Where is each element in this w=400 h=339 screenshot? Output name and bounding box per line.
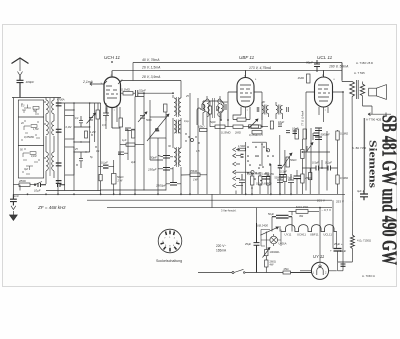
capacitor 5000pF right xyxy=(315,128,322,131)
IF3 trim caps xyxy=(257,107,288,112)
coil L6 coupled xyxy=(52,152,54,170)
capacitor 10µF bottom left xyxy=(38,183,65,187)
PSU cap 5000pF xyxy=(277,174,283,194)
resistor 70kΩ xyxy=(237,118,246,121)
svg-text:26 V, 1,5mA: 26 V, 1,5mA xyxy=(141,66,161,70)
svg-text:280Ω: 280Ω xyxy=(18,179,27,183)
wire right bottom xyxy=(333,200,338,262)
resistor 280Ω bottom left xyxy=(13,183,35,186)
svg-text:0,1MΩ: 0,1MΩ xyxy=(247,173,255,176)
resistor 0,3MΩ xyxy=(251,125,261,128)
resistor M13 25Ω 4W xyxy=(292,210,319,214)
svg-text:25Ω: 25Ω xyxy=(284,267,289,271)
wire mid verticals xyxy=(135,93,198,194)
osc box 2 xyxy=(65,147,74,175)
svg-text:173 V, 4,75mA: 173 V, 4,75mA xyxy=(249,66,272,70)
vertical resistor 0,3MΩ xyxy=(270,121,273,129)
tube pin numbers xyxy=(101,75,336,112)
svg-text:+: + xyxy=(330,249,332,253)
svg-text:160 V, 50mA: 160 V, 50mA xyxy=(329,65,349,69)
svg-text:UY11: UY11 xyxy=(285,233,292,237)
IF2 core xyxy=(213,98,215,118)
wire tone section xyxy=(302,130,337,194)
AVC diode pot arrow xyxy=(249,119,259,129)
IF1b core xyxy=(177,147,179,167)
capacitor 90pF xyxy=(314,60,320,72)
wire IF2 xyxy=(202,96,224,194)
capacitor 4700 dark xyxy=(56,103,62,106)
wire PSU right verticals xyxy=(257,208,344,271)
antenna xyxy=(12,58,29,76)
svg-text:50µF: 50µF xyxy=(268,212,275,216)
PSU resistor MPG xyxy=(259,176,262,185)
svg-text:0,1µF: 0,1µF xyxy=(101,161,108,165)
bus left verticals xyxy=(19,185,21,191)
switch wiper circles xyxy=(251,149,270,174)
electrolytic 25µF dark xyxy=(334,249,342,252)
svg-text:0,3: 0,3 xyxy=(102,124,106,127)
svg-text:UBF 11: UBF 11 xyxy=(239,55,255,60)
svg-text:5000pF: 5000pF xyxy=(321,133,330,137)
svg-text:52pF: 52pF xyxy=(139,89,146,93)
IF2 primary cap xyxy=(202,104,204,110)
svg-text:SB 481 GW und 490 GW: SB 481 GW und 490 GW xyxy=(378,115,400,265)
svg-text:52pF: 52pF xyxy=(222,101,228,104)
oscillator section verticals xyxy=(46,98,101,191)
svg-text:UY 11: UY 11 xyxy=(313,254,324,259)
svg-text:2MΩ: 2MΩ xyxy=(234,131,241,135)
wire anode bus 1 xyxy=(133,62,342,64)
resistor 1,5kΩ contact xyxy=(238,148,246,151)
lamp wiring box xyxy=(261,230,281,247)
padder capacitor 50pF xyxy=(163,156,170,159)
wire IF3 xyxy=(262,102,283,120)
svg-text:4W: 4W xyxy=(270,263,274,267)
resistor 50kΩ 2W xyxy=(112,174,117,185)
current arrow 2,1mA xyxy=(90,83,96,86)
resistor 0,5MΩ right rail xyxy=(336,175,339,184)
scale lamp circle xyxy=(270,236,278,244)
capacitor 25µF xyxy=(254,223,260,273)
IF3b secondary coil xyxy=(281,106,283,114)
PSU top rail xyxy=(212,191,236,208)
resistor row under UBF: R 1,5MΩ xyxy=(215,125,225,128)
trimmer cap mid xyxy=(138,112,147,122)
svg-text:0,1M: 0,1M xyxy=(31,155,36,158)
svg-text:1,5kΩ: 1,5kΩ xyxy=(238,144,245,148)
svg-text:10µF: 10µF xyxy=(34,189,41,193)
tube UBF11 envelope xyxy=(228,70,262,118)
svg-text:ZF: ZF xyxy=(261,101,266,104)
svg-text:0,1µF (MPG): 0,1µF (MPG) xyxy=(256,182,272,186)
vertical capacitor 10µF xyxy=(278,124,282,126)
capacitor C-ant 100pF xyxy=(17,76,24,98)
svg-text:5µF +: 5µF + xyxy=(288,177,295,180)
osc junction dots xyxy=(57,102,97,166)
osc box 1 xyxy=(65,116,74,139)
AVC resistor UCH xyxy=(126,143,135,146)
resistor 10kΩ mid xyxy=(198,125,207,132)
svg-text:0,05MΩ: 0,05MΩ xyxy=(24,135,35,139)
svg-text:10µF: 10µF xyxy=(278,120,285,124)
resistor 50Ω mid xyxy=(132,130,135,138)
coil L4 coupled xyxy=(52,100,54,114)
tuner box junction dots xyxy=(21,103,39,172)
wire output top xyxy=(340,63,372,115)
IF1 core xyxy=(177,97,179,117)
svg-text:(MPG): (MPG) xyxy=(256,173,264,176)
cap 0,1µF mid xyxy=(328,166,331,171)
cap 4700pF xyxy=(118,152,124,155)
svg-text:28 V, 3,9mA: 28 V, 3,9mA xyxy=(141,75,161,79)
svg-text:52pF: 52pF xyxy=(210,121,216,124)
capacitor osc3 dark xyxy=(56,163,62,166)
screen cap UCH xyxy=(125,128,131,131)
coil L3 xyxy=(46,152,48,170)
wire right rail down xyxy=(363,118,366,190)
wire coil column xyxy=(44,98,54,185)
bottom bus line 3 xyxy=(107,207,332,209)
screen resistor UCH xyxy=(119,118,123,127)
resistor 70kΩ 1W xyxy=(190,173,200,177)
detector verticals xyxy=(235,135,285,194)
IF3 primary coil xyxy=(262,106,264,114)
svg-text:50kΩ: 50kΩ xyxy=(290,158,296,162)
misc tiny labels mid xyxy=(96,95,266,164)
output transformer secondary xyxy=(360,84,364,96)
IF1 mid coil pair xyxy=(174,120,181,134)
svg-text:Siemens: Siemens xyxy=(367,140,378,188)
svg-text:25: 25 xyxy=(185,95,189,98)
wire left of UBF xyxy=(197,101,221,127)
PSU resistor 30kΩ 2W xyxy=(267,176,270,185)
svg-text:0,1MΩ: 0,1MΩ xyxy=(340,132,348,136)
svg-text:4700A: 4700A xyxy=(57,98,65,102)
svg-text:5pF: 5pF xyxy=(33,110,38,113)
speaker xyxy=(369,85,387,100)
svg-text:4µF: 4µF xyxy=(131,161,136,164)
core line tuner coils xyxy=(49,98,51,176)
svg-text:Sockelschaltung: Sockelschaltung xyxy=(156,259,182,263)
resistor osc right xyxy=(99,174,102,180)
svg-text:3 Var-Anschl.: 3 Var-Anschl. xyxy=(221,209,237,213)
coil det xyxy=(221,104,223,119)
capacitor 52pF xyxy=(136,90,145,97)
osc cap a xyxy=(79,116,83,127)
svg-text:1µF: 1µF xyxy=(122,139,127,142)
IF transformer 1b secondary coil xyxy=(179,148,181,166)
resistor 260Ω 4W xyxy=(265,260,268,267)
tuner box extra marks xyxy=(22,110,40,174)
resistor 100Ω vertical xyxy=(164,104,168,112)
bottom bus line full xyxy=(13,193,345,195)
IF transformer 1 secondary coil xyxy=(179,98,181,116)
svg-text:40 V, 76mA: 40 V, 76mA xyxy=(142,58,160,62)
svg-text:4 Ω₂ 7150Ω: 4 Ω₂ 7150Ω xyxy=(357,239,371,243)
resistor 0,15MΩ xyxy=(233,125,243,128)
resistor 25kΩ psu xyxy=(309,173,312,180)
svg-text:253 V: 253 V xyxy=(336,200,344,204)
coil left of UBF xyxy=(217,101,223,120)
capacitor 0,1µF MPG xyxy=(262,177,270,180)
capacitor +75 electrolytic xyxy=(336,232,339,271)
svg-text:50pF: 50pF xyxy=(150,156,157,160)
resistor 25Ω bottom xyxy=(283,271,291,274)
resistor left of UBF vertical xyxy=(208,106,211,114)
field coil zigzag xyxy=(338,200,354,262)
svg-text:2,1mA: 2,1mA xyxy=(82,80,94,84)
wire anode bus 2 xyxy=(112,70,342,72)
capacitor 50µF h xyxy=(272,215,292,218)
right margin small labels xyxy=(352,61,382,278)
PSU cap 5µF xyxy=(288,174,294,194)
IF2 secondary cap xyxy=(224,104,226,110)
svg-text:100pF: 100pF xyxy=(26,80,35,84)
capacitor blob contact xyxy=(241,154,244,157)
padder capacitor 250pF xyxy=(163,168,170,171)
capacitor 100pF xyxy=(286,131,290,133)
PSU wires mid xyxy=(266,226,280,273)
capacitor osc4 dark xyxy=(56,181,62,184)
capacitor 0,1µF MPG right xyxy=(294,176,301,179)
svg-text:1,5M: 1,5M xyxy=(33,128,38,131)
resistor 0,1MΩ right rail xyxy=(336,131,339,140)
svg-text:10kΩ: 10kΩ xyxy=(198,125,204,129)
right area verticals xyxy=(306,92,352,271)
socket circle Sockelschaltung xyxy=(158,229,182,253)
svg-text:25kΩ: 25kΩ xyxy=(304,176,311,180)
right margin arrow mark xyxy=(368,113,391,116)
svg-text:– 0,7 V: – 0,7 V xyxy=(322,208,332,212)
mid dots xyxy=(185,133,199,143)
svg-text:5000pF: 5000pF xyxy=(275,177,284,180)
svg-text:1MΩ: 1MΩ xyxy=(298,76,305,80)
capacitor 0,1µF dark left xyxy=(103,165,109,168)
brand Siemens xyxy=(367,140,378,188)
detector resistor xyxy=(283,175,286,182)
tone switch arrow xyxy=(307,143,313,152)
IF3b primary coil xyxy=(276,106,278,114)
svg-text:A· T 535: A· T 535 xyxy=(354,71,365,75)
svg-text:3pF: 3pF xyxy=(24,168,29,171)
svg-text:1,5: 1,5 xyxy=(196,150,200,153)
wire bus drops xyxy=(96,63,342,96)
wire outer left rail xyxy=(12,98,14,195)
svg-text:0,5µF: 0,5µF xyxy=(312,161,319,165)
volume potentiometer arrow xyxy=(281,153,292,169)
wire anode bus 3 xyxy=(121,80,182,82)
Urdox resistor 100ΩWL xyxy=(263,248,271,258)
capacitor 2500pF xyxy=(170,183,177,186)
svg-text:0,1M: 0,1M xyxy=(66,125,73,129)
svg-text:50kΩ: 50kΩ xyxy=(117,175,123,179)
resistor 1MΩ vertical xyxy=(307,74,311,83)
coil L5 coupled xyxy=(52,121,54,135)
wire 50k xyxy=(98,160,114,194)
svg-text:2500pF: 2500pF xyxy=(155,184,166,188)
tube UCL11 envelope xyxy=(306,70,340,122)
resistor vol 50kΩ xyxy=(286,157,290,167)
svg-text:70kΩ: 70kΩ xyxy=(190,169,198,173)
svg-text:M13 25Ω: M13 25Ω xyxy=(296,205,309,209)
tone resistor 1 xyxy=(301,150,304,159)
svg-text:4µF +: 4µF + xyxy=(357,189,364,193)
page border frame (decorative scan border) xyxy=(3,25,397,287)
svg-text:0,1µF: 0,1µF xyxy=(325,161,332,165)
tube UCH11 envelope xyxy=(104,71,121,128)
svg-text:0,1MΩ: 0,1MΩ xyxy=(121,88,131,92)
tuner inner divider xyxy=(18,117,43,146)
svg-text:0,15MΩ: 0,15MΩ xyxy=(221,131,231,135)
wire row under UBF xyxy=(210,92,268,127)
osc tiny labels xyxy=(74,117,95,159)
svg-text:30kΩ 2W: 30kΩ 2W xyxy=(264,173,275,176)
lamp shunt arrow xyxy=(260,227,278,235)
coil L1 xyxy=(46,100,48,114)
capacitor 1nF + ground xyxy=(10,194,17,205)
IF transformer 2 primary xyxy=(207,99,209,117)
capacitor 10nF dark xyxy=(293,131,298,133)
contact circle mid xyxy=(191,139,194,142)
bottom wire to rectifier xyxy=(248,272,312,274)
tuner block frame xyxy=(18,100,43,178)
capacitor 0,3µF xyxy=(279,175,286,178)
osc tie wires xyxy=(65,110,90,152)
svg-text:90pF: 90pF xyxy=(306,61,313,65)
capacitor osc2 dark xyxy=(56,129,62,132)
PSU wires row xyxy=(252,172,268,194)
IF3b core xyxy=(279,105,281,115)
svg-text:2 W: 2 W xyxy=(117,179,123,183)
svg-text:77 V, 0,4mA: 77 V, 0,4mA xyxy=(301,111,305,126)
rectifier tube UY11 xyxy=(291,262,337,279)
svg-text:UCH11: UCH11 xyxy=(297,233,306,237)
svg-text:A· 8Ω 7150: A· 8Ω 7150 xyxy=(352,146,367,150)
svg-text:10nF: 10nF xyxy=(292,127,298,131)
IF transformer 2 secondary xyxy=(218,99,220,117)
svg-text:ZF = 468 kHz: ZF = 468 kHz xyxy=(37,205,66,210)
svg-text:165mA: 165mA xyxy=(216,249,227,253)
title SB 481 GW und 490 GW xyxy=(378,115,400,265)
vertical resistor right 0,5MΩ xyxy=(295,129,299,139)
trimmer capacitor T2 xyxy=(87,113,96,124)
bottom bus line 2 xyxy=(87,199,332,201)
IF3 secondary coil xyxy=(267,106,269,114)
tuner interior parts xyxy=(23,105,39,171)
tone resistor 2 xyxy=(301,174,304,183)
tuner box tiny labels xyxy=(20,105,38,172)
osc cap b xyxy=(79,152,83,168)
mains switch xyxy=(198,269,248,273)
svg-text:22µF: 22µF xyxy=(340,249,347,253)
wire antenna top bus xyxy=(12,97,61,99)
capacitor 0,1µF right xyxy=(315,137,322,140)
band switch arrows xyxy=(233,148,252,188)
IF transformer 1 primary coil xyxy=(174,98,176,116)
svg-text:UCL 11: UCL 11 xyxy=(317,55,333,60)
svg-text:0,15MΩ C5: 0,15MΩ C5 xyxy=(249,133,263,137)
transformer core xyxy=(357,80,359,99)
svg-text:5000: 5000 xyxy=(146,119,152,122)
detector cap dark xyxy=(278,166,282,168)
svg-text:250pF: 250pF xyxy=(147,168,157,172)
svg-text:UCH 11: UCH 11 xyxy=(104,55,120,60)
svg-text:100ΩWL: 100ΩWL xyxy=(270,250,281,254)
wire mid column xyxy=(90,103,101,191)
svg-text:25µF: 25µF xyxy=(245,242,252,246)
cap 5000pF dark xyxy=(314,133,320,136)
switch contact dots xyxy=(247,146,271,174)
svg-text:UCL11: UCL11 xyxy=(323,233,332,237)
svg-text:1nF: 1nF xyxy=(14,194,19,198)
wire under UCH xyxy=(58,103,144,194)
vertical resistor right2 xyxy=(303,129,307,139)
svg-text:25µF +: 25µF + xyxy=(334,242,343,246)
svg-text:205 V: 205 V xyxy=(317,199,325,203)
wire mid horizontals xyxy=(100,93,207,190)
svg-text:0,3µF: 0,3µF xyxy=(280,170,287,174)
IF transformer 1b primary coil xyxy=(174,148,176,166)
svg-text:0,1: 0,1 xyxy=(96,150,100,153)
oscillator unit box xyxy=(147,114,169,141)
coil L2 xyxy=(46,121,48,135)
cathode resistor UCH xyxy=(96,110,100,119)
grid stopper resistor 0,1MΩ xyxy=(121,92,135,96)
osc resistor c xyxy=(85,131,88,138)
output transformer primary xyxy=(350,82,355,97)
svg-text:220 V~: 220 V~ xyxy=(216,244,226,248)
svg-text:UB 2400: UB 2400 xyxy=(257,224,268,228)
PSU vertical components row: cap 50µF xyxy=(239,174,245,194)
svg-text:0,5MΩ: 0,5MΩ xyxy=(340,176,348,180)
svg-text:A· 7150 Ω: A· 7150 Ω xyxy=(362,274,375,278)
coil left2 xyxy=(203,101,205,125)
heater chain humps xyxy=(281,225,337,232)
resistor 0,1MΩ C5 xyxy=(252,131,262,134)
cap 0,5µF xyxy=(316,166,319,171)
svg-text:UBF11: UBF11 xyxy=(310,233,319,237)
svg-text:A· T150 U5 D: A· T150 U5 D xyxy=(356,61,373,65)
cathode cap UCH xyxy=(103,108,109,121)
junction dots bus xyxy=(27,61,344,208)
PSU resistor 0,1MΩ xyxy=(251,176,254,185)
ground symbol xyxy=(10,206,18,221)
IF3 core xyxy=(265,105,267,115)
svg-text:0,1µ: 0,1µ xyxy=(184,120,189,123)
electrolytic 4µF xyxy=(360,190,368,200)
svg-text:4W: 4W xyxy=(299,214,304,218)
svg-text:U401A: U401A xyxy=(279,242,287,246)
wire psu extras xyxy=(297,168,310,194)
switch bottom left xyxy=(34,182,46,186)
